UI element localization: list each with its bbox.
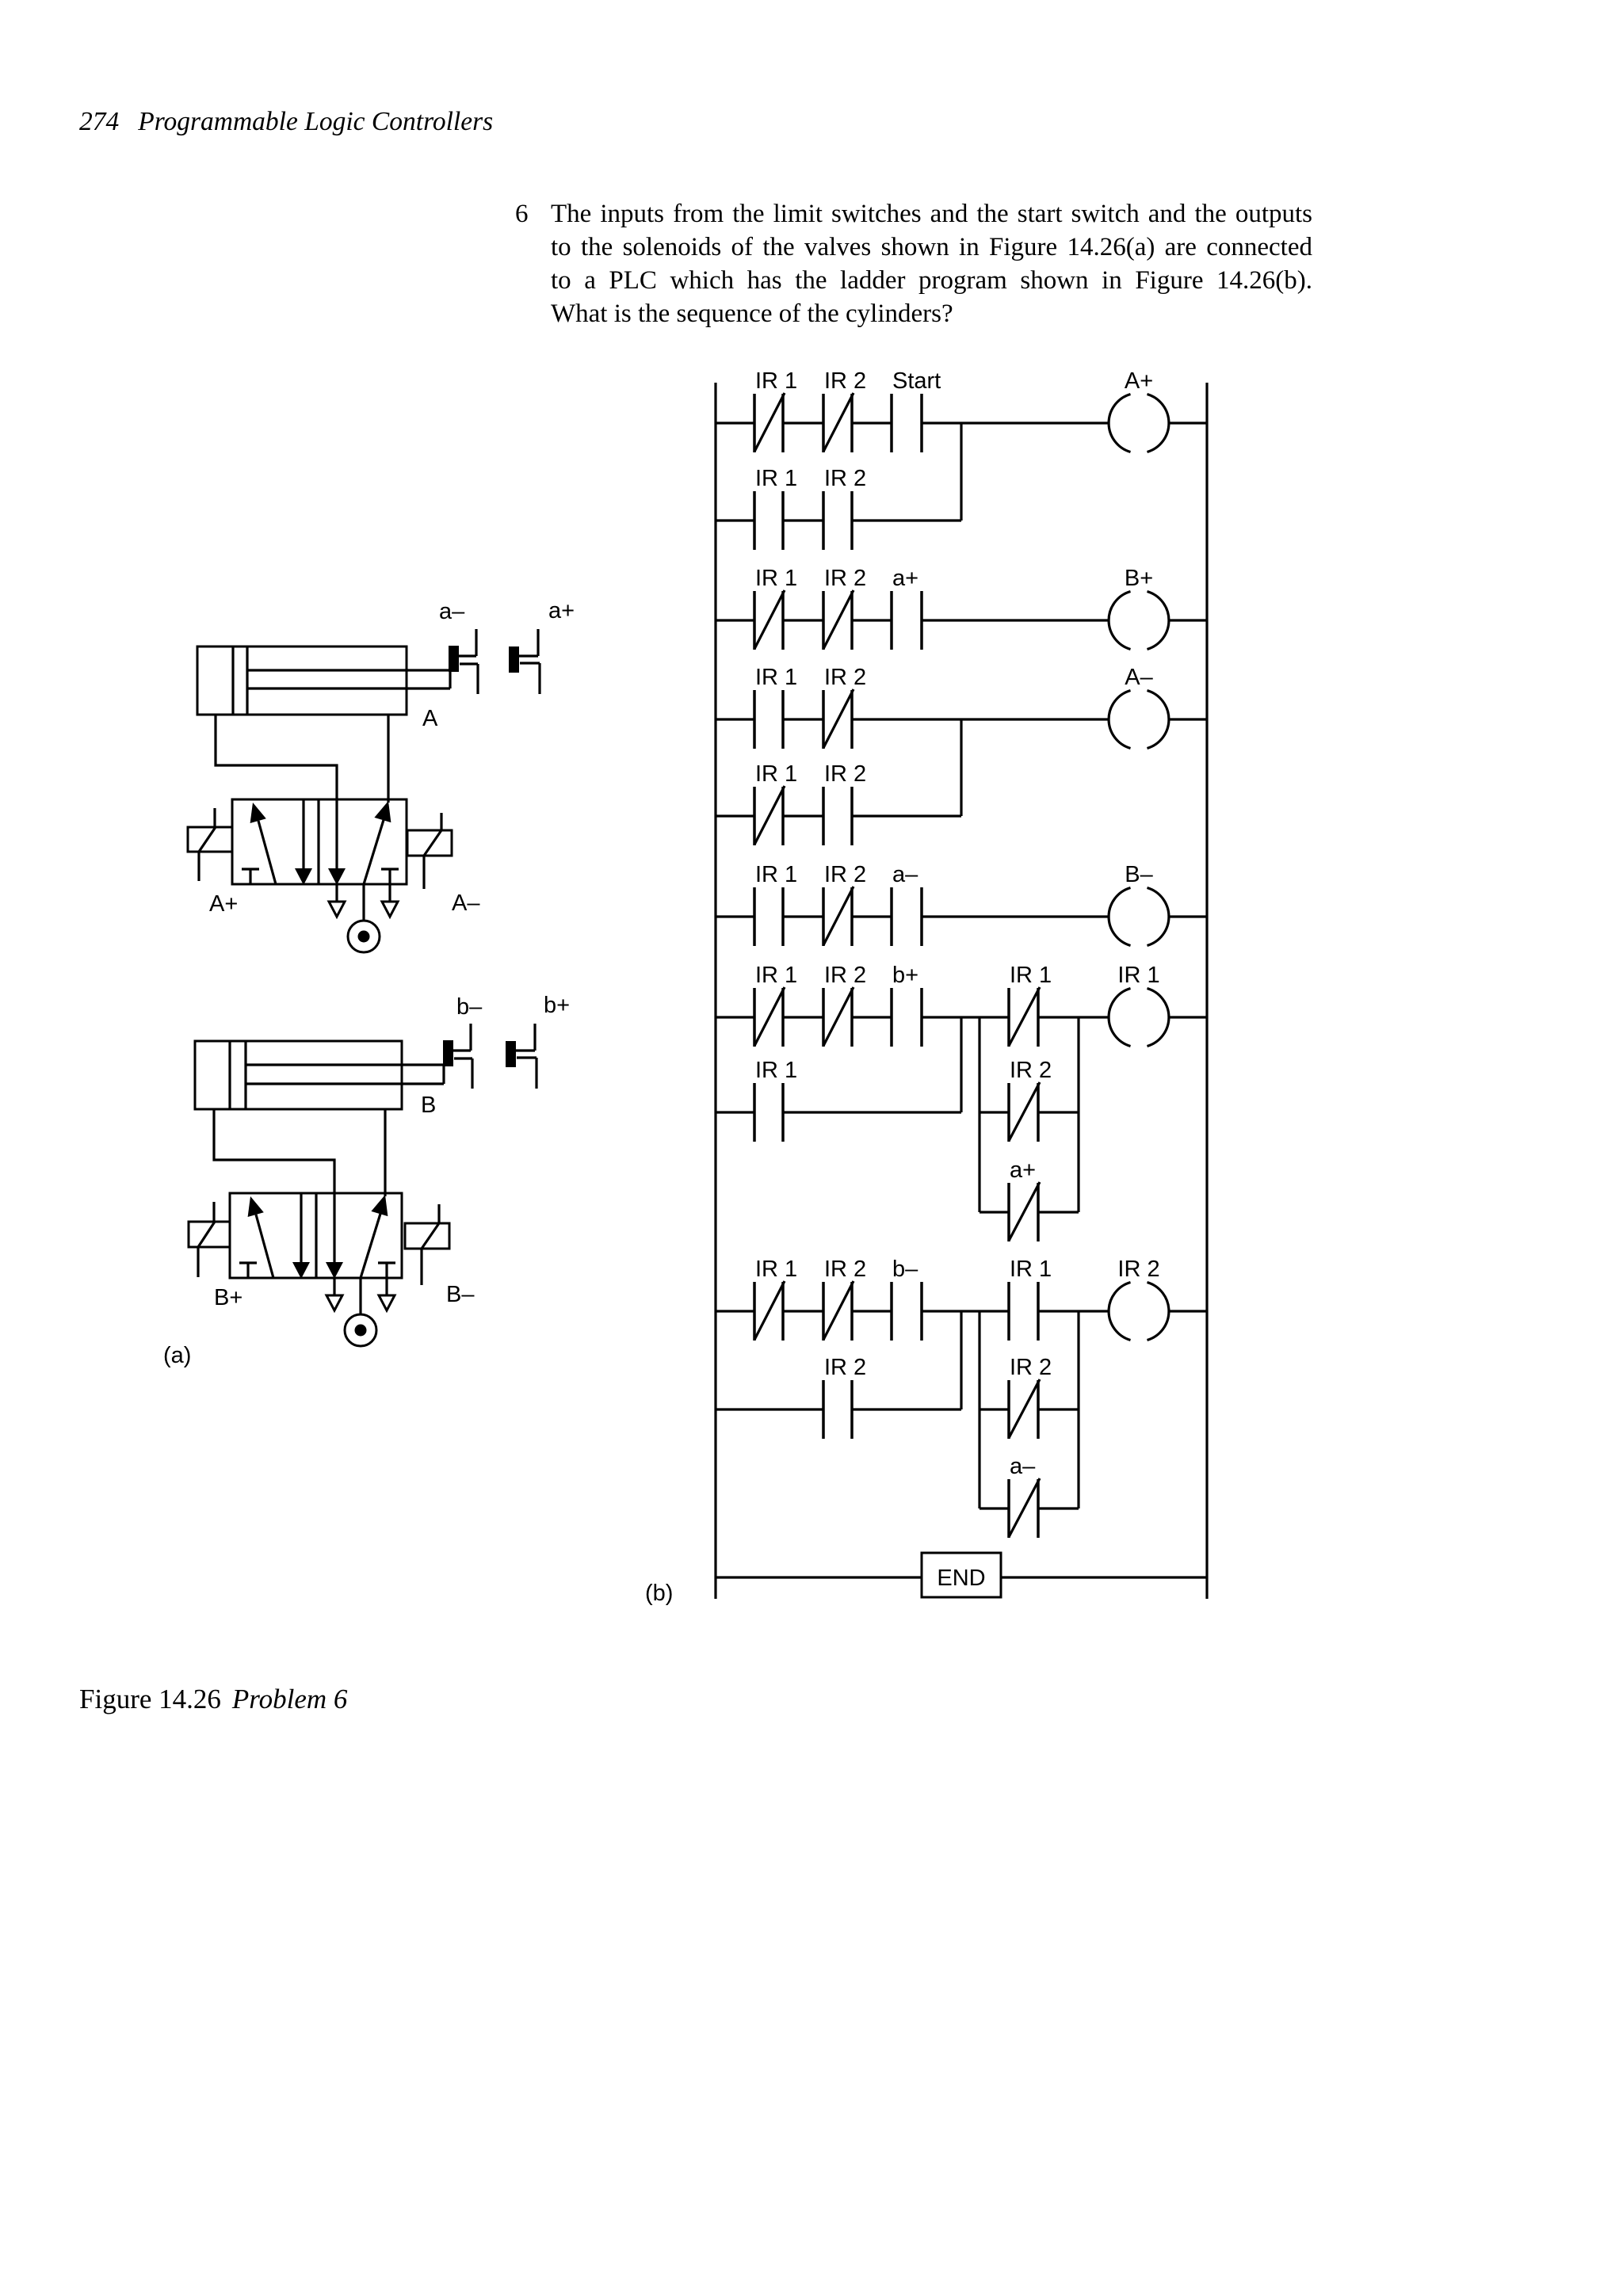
svg-text:IR 1: IR 1 xyxy=(755,862,797,887)
svg-text:(b): (b) xyxy=(645,1581,673,1606)
svg-text:IR 1: IR 1 xyxy=(1117,963,1159,988)
svg-text:A–: A– xyxy=(452,891,480,916)
svg-text:B: B xyxy=(421,1093,436,1118)
svg-text:IR 2: IR 2 xyxy=(824,862,866,887)
svg-text:IR 2: IR 2 xyxy=(1117,1257,1159,1282)
valve A body xyxy=(232,799,407,884)
svg-text:A: A xyxy=(422,706,438,731)
cylinder B body xyxy=(195,1041,402,1109)
rung 6 wires xyxy=(716,1311,1207,1508)
svg-text:IR 1: IR 1 xyxy=(755,466,797,491)
coil A- xyxy=(1109,665,1169,749)
valve B solenoid B+ xyxy=(189,1202,242,1310)
contact IR 1 NO rung1 branch xyxy=(754,466,797,550)
contact IR 2 NC rung3 xyxy=(823,665,866,749)
svg-text:IR 1: IR 1 xyxy=(755,665,797,690)
rung 5 lower branch wires xyxy=(716,1111,1079,1113)
contact IR 1 NC rung1 xyxy=(754,368,797,452)
figure caption xyxy=(79,1685,347,1713)
svg-text:a–: a– xyxy=(1010,1454,1036,1479)
valve B pressure source xyxy=(345,1278,376,1346)
label A xyxy=(422,706,438,731)
svg-text:IR 1: IR 1 xyxy=(755,368,797,394)
valve A exhaust left xyxy=(329,885,345,917)
contact IR 2 NC rung5 xyxy=(823,963,866,1047)
valve A solenoid A+ xyxy=(188,808,238,917)
coil B- xyxy=(1109,862,1169,946)
contact IR 1 NO rung4 xyxy=(754,862,797,946)
limit switch a- xyxy=(439,599,478,694)
contact IR 2 NO rung6 branch xyxy=(823,1355,866,1439)
END rung xyxy=(716,1553,1207,1597)
valve B exhaust right xyxy=(379,1295,395,1310)
valve B left blocked port xyxy=(239,1263,257,1278)
svg-text:IR 2: IR 2 xyxy=(824,1355,866,1380)
svg-text:a–: a– xyxy=(892,862,918,887)
rung 3 wires xyxy=(716,718,1207,720)
svg-text:a+: a+ xyxy=(892,566,918,591)
rung 6 a- parallel wires xyxy=(980,1507,1079,1509)
svg-text:b–: b– xyxy=(456,994,483,1020)
valve B solenoid B- xyxy=(405,1204,475,1307)
limit switch b+ xyxy=(506,993,570,1089)
coil IR 1 xyxy=(1109,963,1169,1047)
valve B down arrow 1 xyxy=(292,1193,310,1279)
svg-text:IR 1: IR 1 xyxy=(1010,963,1052,988)
svg-text:IR 2: IR 2 xyxy=(824,761,866,787)
label B xyxy=(421,1093,436,1118)
contact IR 2 NC rung6 parallel xyxy=(1009,1355,1052,1439)
svg-text:A+: A+ xyxy=(209,891,238,917)
contact IR 1 NO rung6 xyxy=(1009,1257,1052,1341)
svg-text:IR 2: IR 2 xyxy=(1010,1355,1052,1380)
limit switch b- xyxy=(443,994,483,1089)
contact a+ NC rung5 parallel xyxy=(1009,1158,1040,1241)
svg-text:b–: b– xyxy=(892,1257,918,1282)
valve A down arrow 2 xyxy=(328,799,346,885)
rung 2 wires xyxy=(716,619,1207,621)
problem 6 text xyxy=(551,197,1312,330)
contact IR 2 NC rung6 xyxy=(823,1257,866,1341)
contact IR 2 NO rung3 branch xyxy=(823,761,866,845)
valve A right position up arrow xyxy=(364,801,391,884)
contact Start NO rung1 xyxy=(892,368,941,452)
contact a- NO rung4 xyxy=(892,862,922,946)
rung 4 wires xyxy=(716,915,1207,917)
svg-text:IR 2: IR 2 xyxy=(824,566,866,591)
valve B exhaust left xyxy=(327,1279,342,1310)
valve A solenoid A- xyxy=(407,813,480,916)
pipe cylinder A right port to valve xyxy=(387,715,389,803)
contact IR 2 NC rung4 xyxy=(823,862,866,946)
cylinder A body xyxy=(197,646,407,715)
rung 5 wires xyxy=(716,1017,1207,1212)
coil A+ xyxy=(1109,368,1169,452)
pipe cylinder B right port to valve xyxy=(384,1109,386,1196)
pipe cylinder A left port to valve xyxy=(216,715,337,799)
svg-text:B+: B+ xyxy=(1125,566,1153,591)
svg-text:IR 1: IR 1 xyxy=(755,963,797,988)
svg-text:a+: a+ xyxy=(548,598,575,624)
contact IR 2 NO rung1 branch xyxy=(823,466,866,550)
svg-text:IR 1: IR 1 xyxy=(755,761,797,787)
rung 1 branch wires xyxy=(716,423,961,521)
label (a) xyxy=(163,1343,191,1368)
contact IR 1 NC rung5 seal xyxy=(1009,963,1052,1047)
valve B left position up arrow xyxy=(248,1196,273,1278)
contact IR 1 NO rung5 branch xyxy=(754,1058,797,1142)
contact a- NC rung6 parallel xyxy=(1009,1454,1040,1538)
svg-text:IR 2: IR 2 xyxy=(824,1257,866,1282)
coil B+ xyxy=(1109,566,1169,650)
contact IR 1 NC rung3 branch xyxy=(754,761,797,845)
valve A left blocked port xyxy=(242,869,259,884)
svg-text:b+: b+ xyxy=(544,993,570,1018)
valve A exhaust right xyxy=(382,902,398,917)
svg-text:B+: B+ xyxy=(214,1285,242,1310)
contact IR 2 NC rung5 parallel xyxy=(1009,1058,1052,1142)
svg-text:IR 1: IR 1 xyxy=(755,566,797,591)
pipe cylinder B left port to valve xyxy=(214,1109,334,1193)
svg-text:IR 2: IR 2 xyxy=(824,466,866,491)
contact IR 1 NC rung6 xyxy=(754,1257,797,1341)
rung 6 lower branch wires xyxy=(716,1408,1079,1410)
rung 1 wires xyxy=(716,421,1207,424)
coil IR 2 xyxy=(1109,1257,1169,1341)
valve A down arrow 1 xyxy=(295,799,312,885)
valve B right blocked port xyxy=(378,1263,395,1295)
problem number 6 xyxy=(515,197,529,231)
rung 5 a+ parallel wires xyxy=(980,1211,1079,1213)
valve A right blocked port xyxy=(381,869,399,902)
contact IR 1 NC rung2 xyxy=(754,566,797,650)
svg-text:IR 1: IR 1 xyxy=(755,1058,797,1083)
contact a+ NO rung2 xyxy=(892,566,922,650)
svg-text:(a): (a) xyxy=(163,1343,191,1368)
label (b) xyxy=(645,1581,673,1606)
svg-text:a–: a– xyxy=(439,599,465,624)
valve A pressure source xyxy=(348,884,380,952)
svg-text:A+: A+ xyxy=(1125,368,1153,394)
contact IR 1 NC rung5 xyxy=(754,963,797,1047)
contact b- NO rung6 xyxy=(892,1257,922,1341)
rung 3 branch wires xyxy=(716,719,961,816)
svg-text:Start: Start xyxy=(892,368,941,394)
svg-text:A–: A– xyxy=(1125,665,1153,690)
valve B right position up arrow xyxy=(361,1195,388,1278)
valve B body xyxy=(230,1193,402,1278)
valve A left position up arrow xyxy=(250,803,276,884)
left power rail xyxy=(714,383,716,1599)
svg-text:END: END xyxy=(937,1566,985,1591)
cylinder B piston rod xyxy=(246,1065,444,1084)
right power rail xyxy=(1205,383,1208,1599)
svg-text:IR 2: IR 2 xyxy=(824,368,866,394)
svg-text:b+: b+ xyxy=(892,963,918,988)
contact IR 2 NC rung1 xyxy=(823,368,866,452)
svg-text:IR 2: IR 2 xyxy=(824,963,866,988)
cylinder A piston rod xyxy=(247,670,450,688)
svg-text:IR 2: IR 2 xyxy=(824,665,866,690)
svg-text:IR 1: IR 1 xyxy=(1010,1257,1052,1282)
valve B down arrow 2 xyxy=(326,1193,343,1279)
svg-text:B–: B– xyxy=(1125,862,1153,887)
svg-text:IR 2: IR 2 xyxy=(1010,1058,1052,1083)
limit switch a+ xyxy=(509,598,575,694)
svg-text:a+: a+ xyxy=(1010,1158,1036,1183)
contact IR 1 NO rung3 xyxy=(754,665,797,749)
svg-text:B–: B– xyxy=(446,1282,475,1307)
contact IR 2 NC rung2 xyxy=(823,566,866,650)
svg-text:IR 1: IR 1 xyxy=(755,1257,797,1282)
contact b+ NO rung5 xyxy=(892,963,922,1047)
page header xyxy=(79,109,493,135)
